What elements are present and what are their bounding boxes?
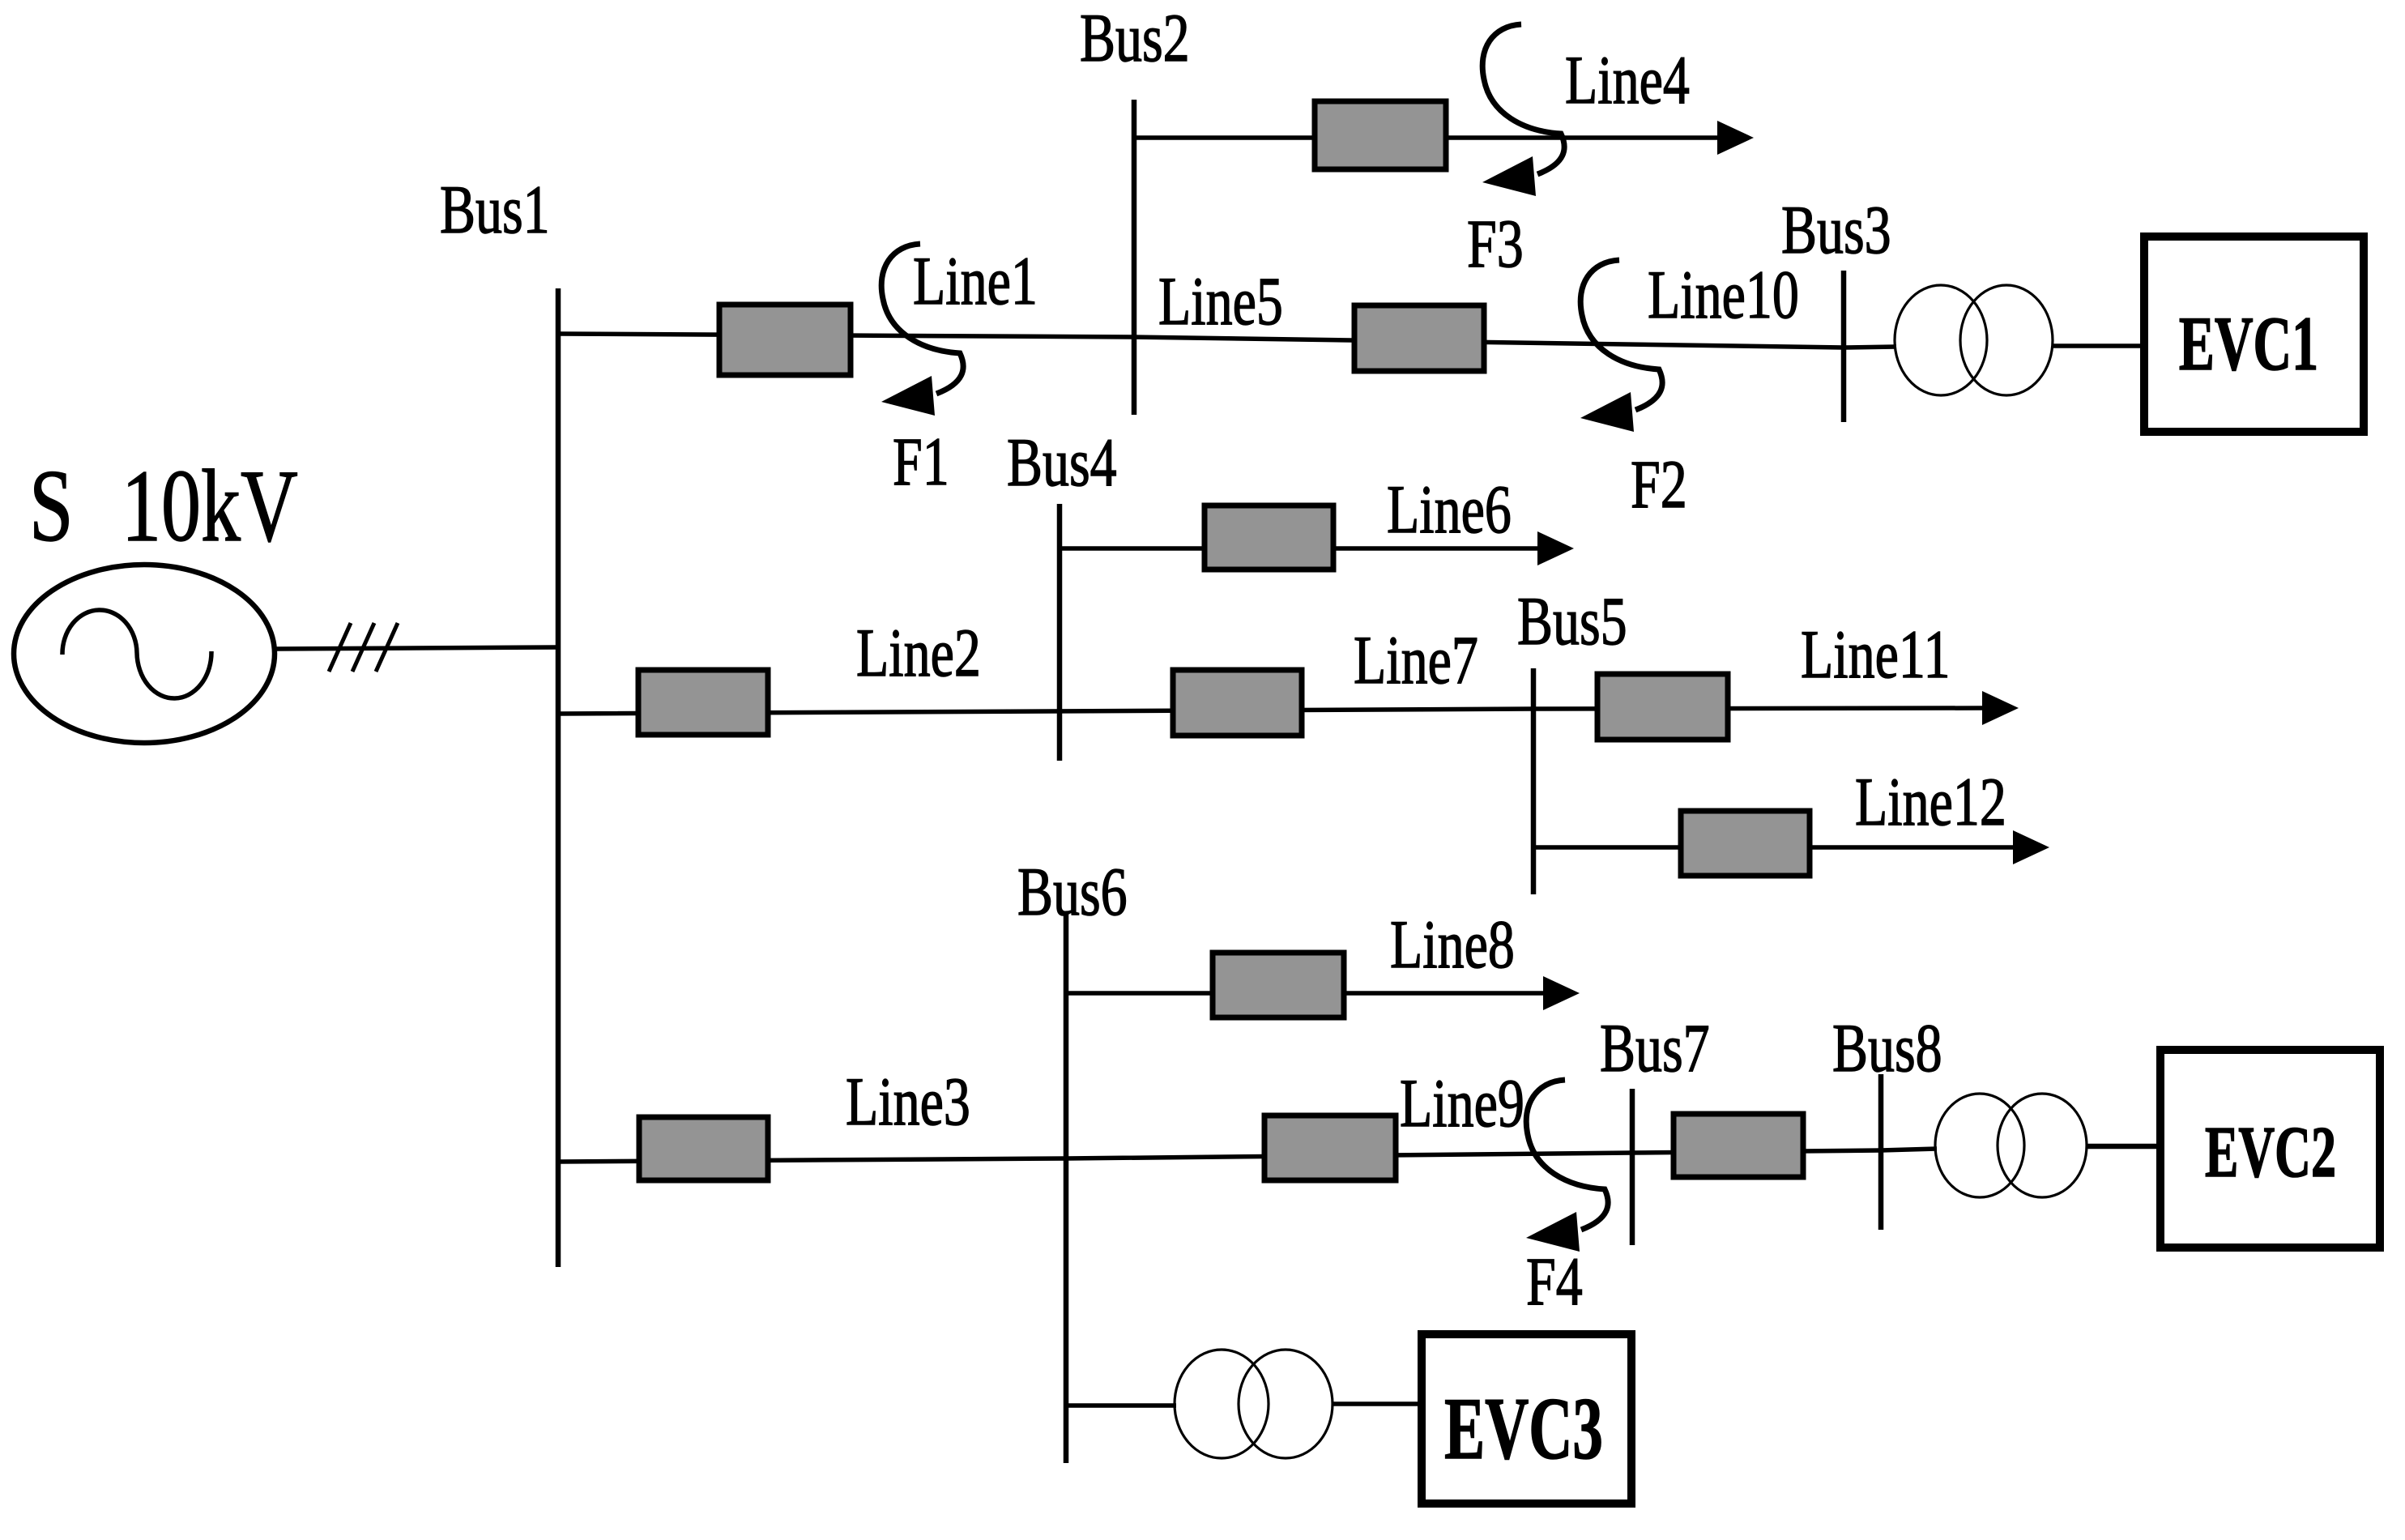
EVC2 box	[2160, 1050, 2380, 1248]
wire Line6 branch from Bus4	[1060, 546, 1539, 551]
svg-text:Bus5: Bus5	[1517, 583, 1627, 659]
hash marks on source wire	[329, 623, 398, 672]
bus Bus7	[1630, 1089, 1635, 1245]
svg-text:Line2: Line2	[856, 615, 981, 691]
wire bottom feeder Bus1 to Bus8 (Line3/Line9)	[558, 1149, 1937, 1162]
svg-text:Line12: Line12	[1855, 764, 2006, 840]
svg-text:Line5: Line5	[1158, 263, 1283, 339]
transformer T2	[1935, 1094, 2087, 1197]
wire Bus6 to transformer T3	[1066, 1403, 1176, 1408]
wire Line4 branch from Bus2	[1134, 135, 1719, 140]
breaker on Line4	[1315, 101, 1446, 169]
bus Bus1	[556, 288, 561, 1267]
svg-text:Line10: Line10	[1648, 257, 1799, 333]
svg-text:F2: F2	[1631, 446, 1687, 523]
breaker between Bus7 and Bus8	[1674, 1114, 1803, 1177]
svg-text:Line3: Line3	[846, 1064, 970, 1140]
svg-text:10kV: 10kV	[122, 449, 298, 563]
breaker on Line5	[1354, 305, 1484, 371]
wire Line12 branch from Bus5	[1533, 845, 2015, 850]
svg-text:F1: F1	[893, 424, 949, 500]
bus Bus4	[1057, 504, 1063, 761]
breaker on Line2	[638, 670, 768, 735]
breaker on Line9	[1264, 1116, 1396, 1180]
breaker on Line8	[1213, 953, 1344, 1017]
arrowhead Line4	[1717, 121, 1754, 155]
wire top feeder Bus1 to transformer (Line1/Line5/Line10)	[558, 334, 1896, 348]
bus Bus5	[1531, 668, 1537, 894]
svg-text:Bus3: Bus3	[1781, 192, 1891, 268]
breaker on Line12	[1681, 811, 1810, 876]
svg-text:Line1: Line1	[913, 243, 1038, 319]
svg-text:Line9: Line9	[1400, 1065, 1524, 1141]
svg-text:F4: F4	[1526, 1244, 1583, 1320]
svg-text:Line7: Line7	[1354, 622, 1478, 698]
arrowhead Line12	[2013, 830, 2049, 864]
svg-text:Bus2: Bus2	[1080, 0, 1190, 76]
bus Bus2	[1132, 100, 1137, 415]
svg-text:EVC2: EVC2	[2205, 1111, 2336, 1192]
svg-text:F3: F3	[1467, 206, 1524, 282]
svg-text:Bus6: Bus6	[1017, 854, 1128, 930]
wire T2 to EVC2	[2087, 1144, 2156, 1150]
fault arrow F3	[1482, 24, 1564, 196]
svg-text:Bus4: Bus4	[1007, 424, 1117, 501]
breaker on Line7	[1173, 670, 1302, 736]
svg-text:Line8: Line8	[1390, 907, 1515, 983]
source sine wave	[62, 610, 211, 698]
source S: AC generator ellipse	[14, 565, 275, 743]
wire source to Bus1	[275, 647, 558, 649]
fault arrow F4	[1526, 1080, 1608, 1252]
bus Bus6	[1064, 914, 1069, 1463]
wire middle feeder Bus1 to Line11 arrow (Line2/Line7/Line11)	[558, 708, 1983, 714]
transformer T3	[1175, 1350, 1333, 1458]
breaker on Line11	[1597, 674, 1728, 740]
bus Bus8	[1878, 1074, 1884, 1230]
svg-text:Bus7: Bus7	[1600, 1010, 1710, 1086]
transformer T1	[1895, 285, 2053, 395]
svg-text:Line11: Line11	[1801, 616, 1950, 693]
svg-text:Bus1: Bus1	[440, 172, 550, 248]
svg-text:EVC3: EVC3	[1444, 1381, 1603, 1478]
arrowhead Line6	[1537, 531, 1574, 565]
EVC1 box	[2144, 237, 2364, 432]
wire T3 to EVC3	[1333, 1401, 1418, 1406]
svg-text:EVC1: EVC1	[2179, 301, 2318, 386]
fault arrow F2	[1580, 260, 1662, 432]
fault arrow F1	[881, 244, 963, 416]
breaker on Line1	[719, 305, 851, 375]
breaker on Line6	[1205, 506, 1333, 570]
arrowhead Line11	[1982, 691, 2019, 725]
bus Bus3	[1841, 271, 1847, 422]
svg-text:Line4: Line4	[1565, 42, 1690, 118]
wire T1 to EVC1	[2053, 343, 2140, 348]
EVC3 box	[1422, 1334, 1631, 1504]
svg-text:S: S	[29, 449, 73, 563]
arrowhead Line8	[1543, 976, 1580, 1010]
svg-text:Line6: Line6	[1387, 471, 1512, 548]
svg-text:Bus8: Bus8	[1832, 1010, 1942, 1086]
breaker on Line3	[639, 1117, 768, 1180]
wire Line8 branch from Bus6	[1066, 991, 1545, 996]
